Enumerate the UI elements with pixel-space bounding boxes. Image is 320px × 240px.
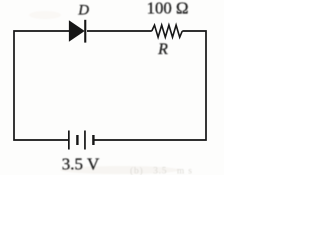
- svg-text:(b) 3.5 m s: (b) 3.5 m s: [130, 166, 192, 176]
- svg-text:D: D: [77, 2, 89, 18]
- svg-text:100 Ω: 100 Ω: [147, 0, 189, 18]
- svg-text:R: R: [157, 41, 168, 58]
- svg-text:3.5 V: 3.5 V: [62, 154, 100, 173]
